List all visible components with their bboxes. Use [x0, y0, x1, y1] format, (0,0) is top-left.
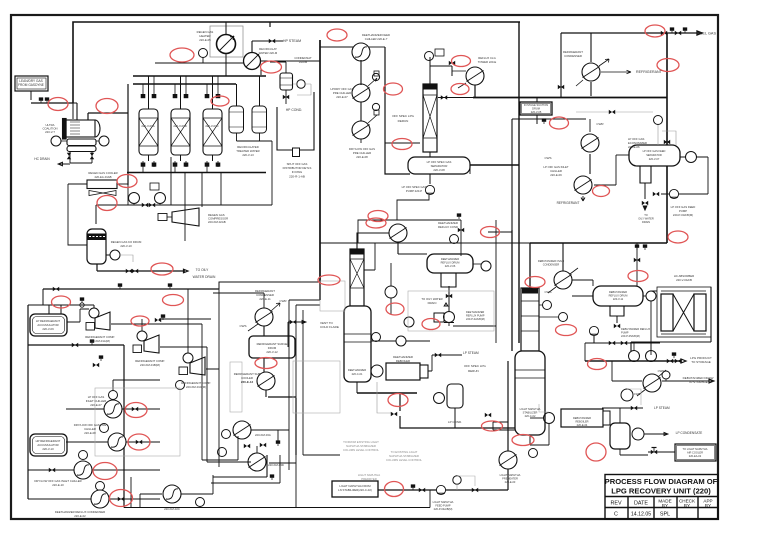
svg-text:C: C [614, 512, 618, 518]
svg-text:14.12.05: 14.12.05 [631, 512, 651, 518]
svg-text:WATER DRAIN: WATER DRAIN [193, 275, 216, 279]
svg-text:REFLUX DRUM: REFLUX DRUM [609, 294, 628, 298]
svg-text:SEPARATOR: SEPARATOR [646, 153, 662, 157]
svg-text:REFLUX PUMP: REFLUX PUMP [466, 314, 485, 318]
svg-text:COLUMN LEVEL CONTROL: COLUMN LEVEL CONTROL [343, 448, 379, 452]
svg-text:220-V-06: 220-V-06 [445, 264, 456, 268]
svg-text:REFRIGERANT: REFRIGERANT [636, 70, 663, 74]
svg-text:220-E-12: 220-E-12 [241, 380, 254, 384]
svg-text:DEBUTANIZER: DEBUTANIZER [573, 416, 591, 420]
svg-text:220-V-?: 220-V-? [45, 130, 55, 134]
svg-text:DRAIN: DRAIN [642, 220, 650, 224]
svg-text:REFLUX COND: REFLUX COND [438, 225, 458, 229]
svg-text:220-P-03A/B(M): 220-P-03A/B(M) [673, 213, 693, 217]
svg-text:RERUN: RERUN [468, 369, 479, 373]
svg-text:220-C-02: 220-C-02 [525, 414, 536, 418]
svg-text:LIGHT NAPHTHA: LIGHT NAPHTHA [433, 500, 454, 504]
svg-text:220-V-11: 220-V-11 [613, 297, 624, 301]
svg-text:220-V-10: 220-V-10 [42, 447, 54, 451]
svg-text:220-E-07: 220-E-07 [336, 95, 348, 99]
svg-text:REBOILER: REBOILER [575, 420, 588, 424]
svg-text:IN DWG: IN DWG [292, 170, 302, 174]
svg-text:CWR: CWR [658, 369, 665, 373]
svg-text:220-C-01: 220-C-01 [352, 372, 363, 376]
svg-text:WATER 220-M: WATER 220-M [259, 51, 278, 55]
svg-text:DEETHANIZER: DEETHANIZER [348, 368, 366, 372]
svg-text:DRUM: DRUM [299, 60, 308, 64]
svg-text:220-V-13: 220-V-13 [242, 153, 254, 157]
svg-text:DEBUTANIZER: DEBUTANIZER [609, 290, 627, 294]
svg-text:COLD FLARE: COLD FLARE [320, 325, 339, 329]
svg-text:COLUMN LEVEL CONTROL: COLUMN LEVEL CONTROL [386, 458, 422, 462]
svg-text:CWS: CWS [545, 290, 552, 294]
svg-text:DEETHANIZER: DEETHANIZER [466, 310, 484, 314]
svg-text:SPL: SPL [660, 512, 670, 518]
svg-text:TO: TO [644, 213, 648, 217]
svg-text:DRAIN: DRAIN [428, 301, 437, 305]
svg-text:DATE: DATE [634, 501, 648, 507]
svg-text:PROCESS FLOW DIAGRAM OF: PROCESS FLOW DIAGRAM OF [605, 477, 718, 486]
svg-text:220-V-05: 220-V-05 [531, 110, 542, 114]
svg-text:LIGHT NAPHTHA: LIGHT NAPHTHA [520, 407, 541, 411]
svg-text:CWS: CWS [240, 324, 247, 328]
svg-text:220-KM-03D: 220-KM-03D [268, 463, 284, 467]
svg-text:220-KM-01A(M): 220-KM-01A(M) [90, 339, 110, 343]
svg-text:220-E-02: 220-E-02 [74, 514, 86, 518]
svg-text:REV: REV [610, 501, 621, 507]
svg-text:LP OFF GAS FEED: LP OFF GAS FEED [643, 149, 666, 153]
svg-text:LP CONDENSATE: LP CONDENSATE [676, 431, 703, 435]
svg-text:220-E-04: 220-E-04 [577, 423, 588, 427]
svg-text:TO STORAGE: TO STORAGE [691, 360, 711, 364]
svg-text:REFLUX DRUM: REFLUX DRUM [441, 261, 460, 265]
svg-text:220-KM-02AB: 220-KM-02AB [208, 220, 226, 224]
svg-text:BY: BY [684, 503, 690, 508]
svg-text:REBOILER: REBOILER [396, 359, 410, 363]
svg-text:HP COND.: HP COND. [286, 108, 303, 112]
svg-text:220-P-04A/B(M): 220-P-04A/B(M) [434, 507, 453, 511]
svg-text:220-E-08: 220-E-08 [356, 155, 368, 159]
svg-text:220-E-07: 220-E-07 [90, 403, 102, 407]
svg-text:220-V-01C: 220-V-01C [205, 124, 218, 128]
svg-text:PREDRYER: PREDRYER [361, 477, 377, 481]
svg-text:220-E-11: 220-E-11 [259, 297, 271, 301]
svg-text:BY: BY [705, 503, 711, 508]
svg-text:TO STORAGE: TO STORAGE [688, 380, 708, 384]
svg-text:220-V-04A/B: 220-V-04A/B [676, 278, 692, 282]
svg-text:LIGHT NAPHTHA: LIGHT NAPHTHA [500, 473, 521, 477]
svg-text:FROM GASDYNE: FROM GASDYNE [18, 83, 44, 87]
svg-text:TO LIGHT NAPHTHA: TO LIGHT NAPHTHA [683, 447, 708, 451]
svg-text:PREHEATER: PREHEATER [502, 477, 518, 481]
svg-text:FUEL GAS: FUEL GAS [697, 32, 716, 36]
svg-text:DEBUTANIZER OVHD: DEBUTANIZER OVHD [538, 259, 564, 263]
svg-text:220-V-10: 220-V-10 [120, 244, 132, 248]
svg-text:DRUM: DRUM [532, 107, 540, 111]
svg-text:220-KM-01C(M): 220-KM-01C(M) [186, 385, 206, 389]
svg-text:CHILLER 220-E-?: CHILLER 220-E-? [365, 37, 388, 41]
svg-text:LP STEAM: LP STEAM [654, 406, 670, 410]
svg-text:CWS: CWS [545, 156, 552, 160]
svg-text:STABILIZER: STABILIZER [523, 411, 538, 415]
svg-text:220-P-02A/B(M): 220-P-02A/B(M) [466, 317, 485, 321]
svg-text:220-V-07: 220-V-07 [649, 157, 660, 161]
svg-text:220-R-1-AB: 220-R-1-AB [289, 175, 305, 179]
svg-text:CWR: CWR [279, 299, 287, 303]
svg-text:LP COND.: LP COND. [448, 420, 462, 424]
svg-text:LP STEAM: LP STEAM [463, 351, 479, 355]
svg-text:220-KM-01B(M): 220-KM-01B(M) [140, 363, 160, 367]
svg-text:AIR COOLER: AIR COOLER [687, 451, 703, 455]
svg-text:220-KM-03A: 220-KM-03A [255, 433, 271, 437]
svg-text:220-EA-02: 220-EA-02 [689, 454, 702, 458]
svg-text:220-E-03: 220-E-03 [505, 480, 516, 484]
svg-text:OFF SPEC LPG: OFF SPEC LPG [464, 364, 487, 368]
svg-text:FEED PUMP: FEED PUMP [435, 504, 450, 508]
svg-text:220-KM-02C: 220-KM-02C [164, 507, 180, 511]
svg-text:220-E-09: 220-E-09 [550, 173, 562, 177]
svg-text:LN STABILIZER(220-C-02): LN STABILIZER(220-C-02) [338, 488, 372, 492]
svg-text:REFRIGERANT: REFRIGERANT [557, 201, 580, 205]
svg-text:DEETHANIZER: DEETHANIZER [441, 257, 459, 261]
svg-text:220-EA-01AB: 220-EA-01AB [94, 175, 111, 179]
svg-text:IN STAGE SUCTION: IN STAGE SUCTION [524, 103, 548, 107]
svg-text:220-E-08: 220-E-08 [84, 431, 96, 435]
svg-text:220-V-08: 220-V-08 [433, 168, 445, 172]
svg-text:HP STEAM: HP STEAM [283, 39, 301, 43]
svg-text:220-V-01B: 220-V-01B [173, 124, 186, 128]
svg-text:220-V-09: 220-V-09 [42, 327, 54, 331]
svg-text:220-E-05: 220-E-05 [199, 38, 211, 42]
svg-text:220-E-06: 220-E-06 [628, 145, 640, 149]
svg-text:CWR: CWR [596, 122, 604, 126]
svg-text:220-P-05A/B(M): 220-P-05A/B(M) [621, 334, 640, 338]
svg-text:LPG RECOVERY UNIT (220): LPG RECOVERY UNIT (220) [611, 487, 711, 496]
svg-text:TO OILY: TO OILY [196, 268, 210, 272]
svg-text:BY: BY [662, 503, 668, 508]
svg-text:RERUN: RERUN [398, 119, 409, 123]
svg-text:PUMP 220-P: PUMP 220-P [406, 189, 422, 193]
svg-text:DEBUTANIZER REFLUX: DEBUTANIZER REFLUX [621, 327, 650, 331]
svg-text:HC DRAIN: HC DRAIN [34, 157, 50, 161]
svg-text:TOWER 220-E: TOWER 220-E [478, 60, 497, 64]
svg-text:OFF SPEC LPG: OFF SPEC LPG [392, 114, 415, 118]
svg-text:220-E-10: 220-E-10 [52, 483, 64, 487]
svg-text:220-V-01A: 220-V-01A [141, 124, 154, 128]
svg-text:OILY WATER: OILY WATER [638, 217, 654, 221]
svg-text:PUMP: PUMP [621, 331, 629, 335]
svg-text:CWS: CWS [634, 392, 641, 396]
svg-text:CONDENSER: CONDENSER [564, 54, 582, 58]
svg-text:CONDENSER: CONDENSER [543, 263, 560, 267]
svg-text:220-V-12: 220-V-12 [266, 350, 278, 354]
